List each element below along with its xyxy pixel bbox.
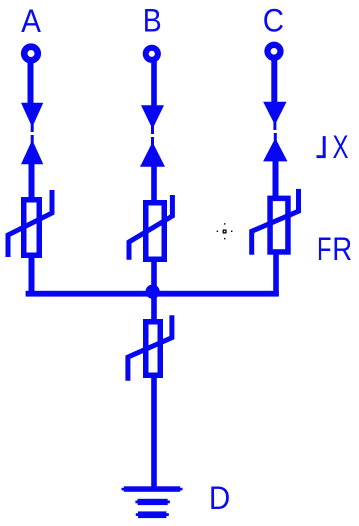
wire C gap to arrester — [273, 160, 279, 198]
anchor marker artifact — [217, 223, 233, 239]
ground plate 3 — [138, 511, 166, 518]
gap JX phase A down arrow — [21, 103, 43, 132]
svg-text:R: R — [332, 232, 352, 267]
bus wire (common) — [26, 291, 279, 297]
svg-text:F: F — [317, 232, 331, 267]
terminal B — [146, 48, 158, 60]
gap JX phase C up arrow — [263, 133, 287, 161]
arrester FR neutral body — [146, 322, 161, 376]
ground plate 1 — [124, 486, 180, 492]
gap JX phase A up arrow — [21, 135, 43, 164]
gap JX phase C down arrow — [263, 102, 287, 130]
arrester FR phase C body — [270, 198, 288, 252]
wire A gap to arrester — [29, 163, 35, 199]
terminal C — [268, 45, 281, 58]
wire C arrester to bus — [273, 254, 279, 296]
arrester FR phase C varistor stroke — [252, 191, 299, 252]
arrester FR neutral varistor stroke — [128, 318, 172, 379]
gap JX phase B down arrow — [141, 105, 164, 134]
wire B terminal to gap — [151, 61, 157, 107]
terminal A — [24, 47, 38, 61]
wire B gap to arrester — [151, 165, 157, 203]
wire A terminal to gap — [28, 61, 34, 105]
wire B arrester to bus — [151, 261, 157, 296]
ground plate 2 — [138, 499, 168, 505]
svg-text:C: C — [263, 2, 284, 38]
svg-text:B: B — [143, 4, 162, 39]
wire neutral arrester to ground — [151, 377, 157, 489]
arrester FR phase B varistor stroke — [129, 198, 172, 258]
svg-text:A: A — [21, 3, 41, 39]
wire A arrester to bus — [29, 256, 35, 296]
gap JX phase B up arrow — [140, 137, 165, 167]
svg-text:X: X — [333, 129, 349, 165]
wire C terminal to gap — [271, 58, 277, 103]
wire junction to neutral arrester — [151, 291, 157, 321]
arrester FR phase A body — [24, 200, 40, 256]
arrester FR phase B body — [146, 203, 165, 260]
arrester FR phase A varistor stroke — [8, 193, 52, 255]
label JX (gap) — [317, 136, 326, 158]
junction dot on bus — [146, 285, 160, 299]
svg-text:D: D — [209, 480, 230, 516]
